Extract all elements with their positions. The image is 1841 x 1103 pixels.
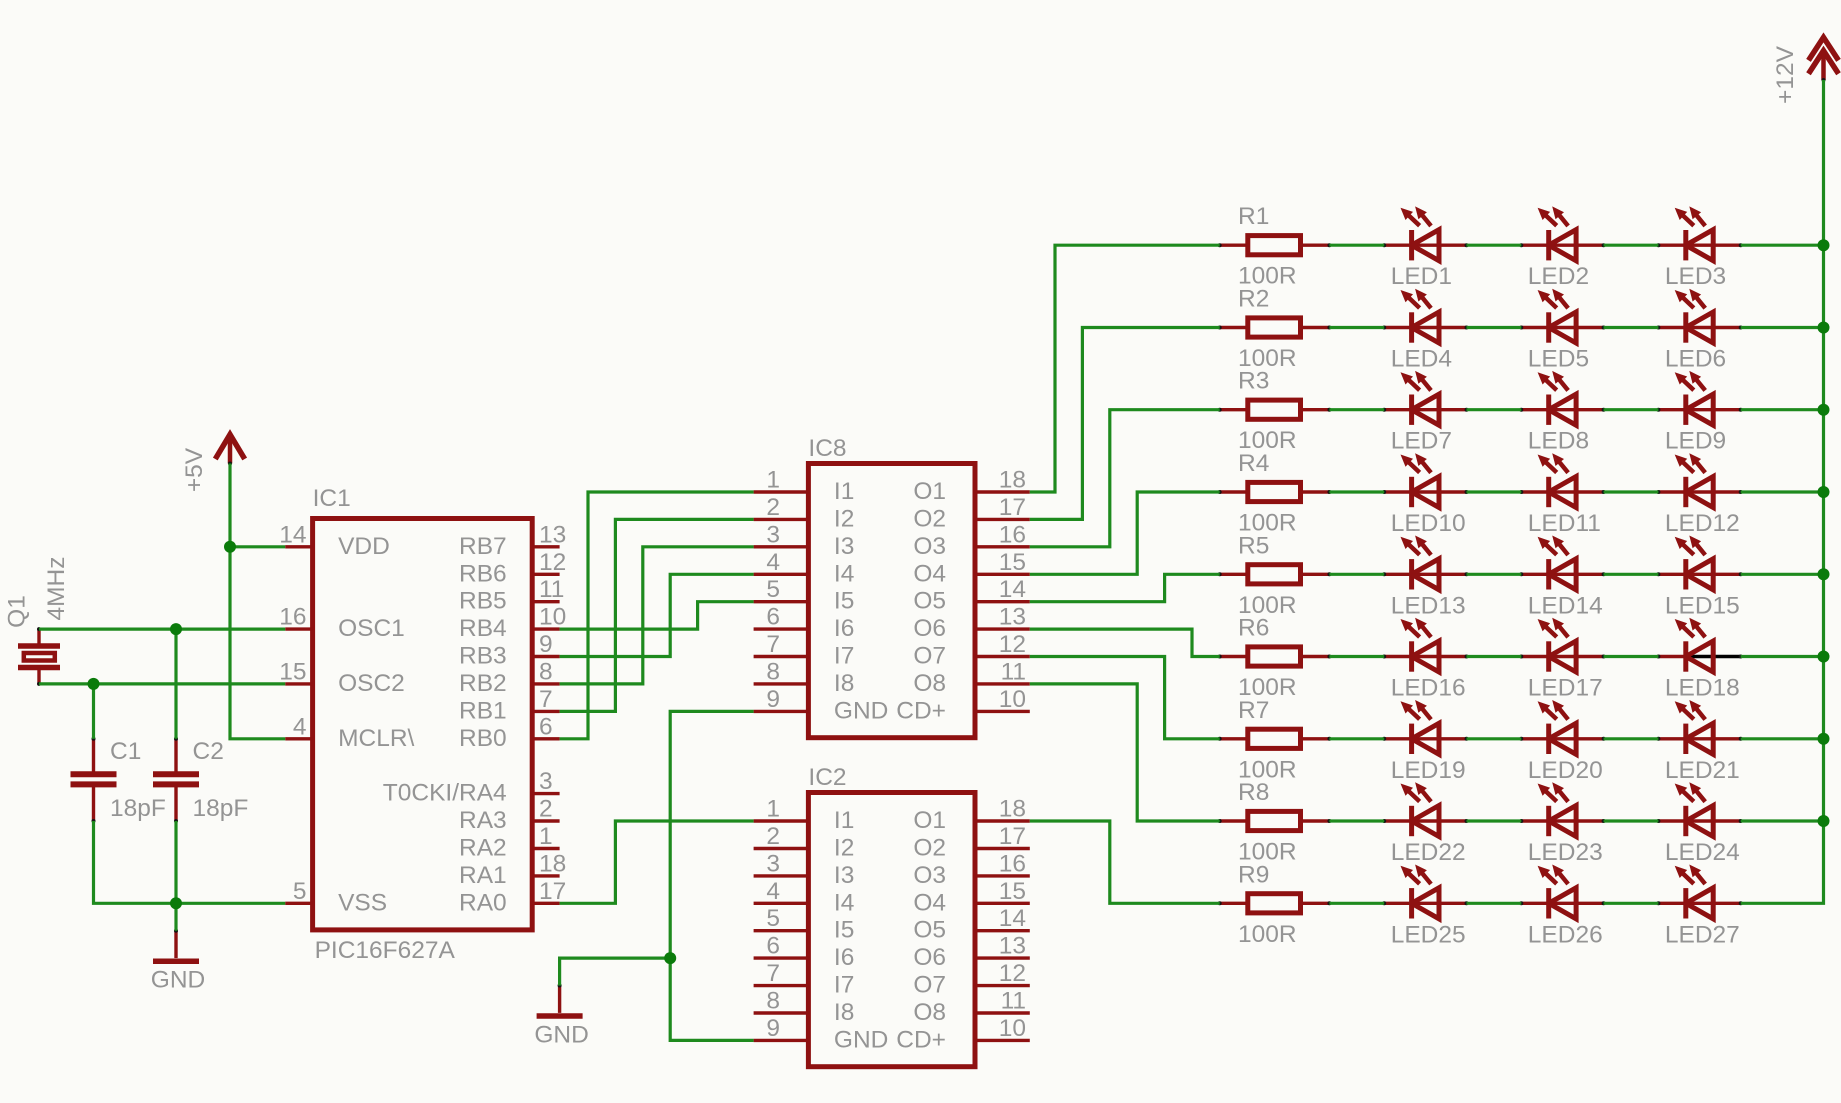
svg-text:LED7: LED7 xyxy=(1391,428,1452,455)
LED LED5 xyxy=(1519,289,1605,373)
svg-text:+5V: +5V xyxy=(181,447,208,492)
svg-text:16: 16 xyxy=(279,604,306,631)
svg-text:RB6: RB6 xyxy=(459,560,507,587)
svg-text:O2: O2 xyxy=(913,505,946,532)
IC8 pin 3 I3 xyxy=(754,521,855,560)
wire row 1: R1 to LED1 xyxy=(1329,244,1384,247)
IC2 pin 13 O6 xyxy=(913,933,1029,972)
svg-text:8: 8 xyxy=(766,658,780,685)
wire row 9: LED27 to +12V bus xyxy=(1741,80,1824,903)
LED LED8 xyxy=(1519,371,1605,455)
svg-text:LED23: LED23 xyxy=(1528,839,1603,866)
svg-text:LED26: LED26 xyxy=(1528,921,1603,948)
LED LED11 xyxy=(1519,453,1605,537)
IC1 pin 3 T0CKI/RA4 xyxy=(383,768,560,807)
IC2 pin 1 I1 xyxy=(754,796,855,835)
LED LED9 xyxy=(1656,371,1742,455)
svg-text:LED21: LED21 xyxy=(1665,757,1740,784)
svg-text:11: 11 xyxy=(1001,988,1026,1015)
IC8 pin 2 I2 xyxy=(754,494,855,533)
svg-text:17: 17 xyxy=(999,823,1026,850)
svg-text:LED22: LED22 xyxy=(1391,839,1466,866)
svg-text:LED5: LED5 xyxy=(1528,346,1589,373)
svg-text:15: 15 xyxy=(999,878,1026,905)
svg-text:RA1: RA1 xyxy=(459,862,507,889)
svg-text:14: 14 xyxy=(279,521,306,548)
IC2 pin 11 O8 xyxy=(913,988,1029,1027)
svg-text:O6: O6 xyxy=(913,944,946,971)
IC1 pin 17 RA0 xyxy=(459,878,566,917)
wire row 4: LED12 to +12V bus xyxy=(1741,490,1824,493)
svg-text:18: 18 xyxy=(999,796,1026,823)
IC2 pin 3 I3 xyxy=(754,850,855,889)
svg-text:I1: I1 xyxy=(834,478,854,505)
wire IC8 O2 to R3 xyxy=(1030,328,1220,520)
svg-text:6: 6 xyxy=(766,604,780,631)
junction node +12V bus row 8 xyxy=(1818,815,1830,827)
svg-text:I4: I4 xyxy=(834,560,854,587)
svg-text:R8: R8 xyxy=(1238,779,1269,806)
junction node +12V bus row 7 xyxy=(1818,733,1830,745)
LED LED26 xyxy=(1519,865,1605,949)
junction node +12V bus row 5 xyxy=(1818,568,1830,580)
svg-text:3: 3 xyxy=(766,521,780,548)
resistor R5 100R xyxy=(1218,532,1332,619)
LED LED20 xyxy=(1519,700,1605,784)
wire IC8 O6 to R7 xyxy=(1030,629,1220,656)
svg-text:9: 9 xyxy=(539,631,553,658)
junction node +12V bus row 2 xyxy=(1818,322,1830,334)
svg-text:R2: R2 xyxy=(1238,286,1269,313)
svg-text:11: 11 xyxy=(1001,658,1026,685)
resistor R9 100R xyxy=(1218,861,1332,948)
wire IC8 O8 to R9 xyxy=(1030,684,1220,821)
IC IC8 box xyxy=(808,435,975,738)
svg-text:8: 8 xyxy=(539,658,553,685)
IC1 pin 16 OSC1 xyxy=(279,604,405,643)
svg-text:11: 11 xyxy=(539,576,564,603)
wire GND net: IC8 pin9 to IC2 pin9 xyxy=(670,711,753,1040)
svg-text:4: 4 xyxy=(766,878,780,905)
svg-text:LED17: LED17 xyxy=(1528,675,1603,702)
IC2 pin 6 I6 xyxy=(754,933,855,972)
wire row 1: LED1 to LED2 xyxy=(1467,244,1522,247)
svg-text:LED3: LED3 xyxy=(1665,263,1726,290)
IC1 pin 2 RA3 xyxy=(459,796,560,835)
IC2 pin 12 O7 xyxy=(913,960,1029,999)
svg-text:Q1: Q1 xyxy=(4,595,31,628)
resistor R3 100R xyxy=(1218,368,1332,455)
svg-text:O5: O5 xyxy=(913,588,946,615)
IC8 pin 14 O5 xyxy=(913,576,1029,615)
crystal Q1 4MHz xyxy=(4,557,71,686)
svg-text:I2: I2 xyxy=(834,835,854,862)
svg-text:RB0: RB0 xyxy=(459,725,507,752)
svg-text:I7: I7 xyxy=(834,643,854,670)
IC1 pin 10 RB4 xyxy=(459,604,566,643)
svg-text:3: 3 xyxy=(539,768,553,795)
svg-text:12: 12 xyxy=(539,549,566,576)
IC2 pin 17 O2 xyxy=(913,823,1029,862)
svg-text:8: 8 xyxy=(766,988,780,1015)
svg-text:4: 4 xyxy=(293,713,307,740)
IC1 pin 7 RB1 xyxy=(459,686,560,725)
svg-text:1: 1 xyxy=(539,823,553,850)
wire row 2: R2 to LED4 xyxy=(1329,326,1384,329)
IC8 pin 12 O7 xyxy=(913,631,1029,670)
LED LED16 xyxy=(1382,618,1468,702)
resistor R6 100R xyxy=(1218,615,1332,702)
resistor R1 100R xyxy=(1218,203,1332,290)
LED LED22 xyxy=(1382,782,1468,866)
svg-text:7: 7 xyxy=(766,631,780,658)
LED LED10 xyxy=(1382,453,1468,537)
IC8 pin 17 O2 xyxy=(913,494,1029,533)
wire row 4: LED10 to LED11 xyxy=(1467,490,1522,493)
svg-text:17: 17 xyxy=(539,878,566,905)
svg-text:I8: I8 xyxy=(834,670,854,697)
wire GND branch to GND symbol xyxy=(560,958,671,985)
wire OSC1 branch to C2 xyxy=(174,629,177,739)
svg-text:R6: R6 xyxy=(1238,615,1269,642)
IC IC2 box xyxy=(808,764,975,1067)
wire row 9: R9 to LED25 xyxy=(1329,902,1384,905)
IC2 pin 18 O1 xyxy=(913,796,1029,835)
svg-text:IC1: IC1 xyxy=(313,485,351,512)
svg-text:7: 7 xyxy=(539,686,553,713)
svg-text:O3: O3 xyxy=(913,862,946,889)
svg-text:LED2: LED2 xyxy=(1528,263,1589,290)
LED LED27 xyxy=(1656,865,1742,949)
IC1 pin 14 VDD xyxy=(279,521,390,560)
LED LED6 xyxy=(1656,289,1742,373)
svg-text:9: 9 xyxy=(766,686,780,713)
svg-text:13: 13 xyxy=(999,604,1026,631)
svg-text:100R: 100R xyxy=(1238,921,1297,948)
IC8 pin 16 O3 xyxy=(913,521,1029,560)
svg-text:VSS: VSS xyxy=(338,889,387,916)
svg-text:I5: I5 xyxy=(834,917,854,944)
capacitor C1 18pF xyxy=(71,737,166,823)
svg-text:18pF: 18pF xyxy=(193,795,249,822)
junction node +5V/VDD xyxy=(224,541,236,553)
svg-text:4MHz: 4MHz xyxy=(43,557,70,621)
IC8 pin 5 I5 xyxy=(754,576,855,615)
IC8 pin 11 O8 xyxy=(913,658,1029,697)
svg-text:I6: I6 xyxy=(834,944,854,971)
wire row 7: LED19 to LED20 xyxy=(1467,737,1522,740)
IC1 pin 12 RB6 xyxy=(459,549,566,588)
svg-text:I3: I3 xyxy=(834,533,854,560)
IC2 pin 9 GND xyxy=(754,1015,889,1054)
IC8 pin 7 I7 xyxy=(754,631,855,670)
svg-text:IC2: IC2 xyxy=(808,764,846,791)
wire row 1: LED2 to LED3 xyxy=(1604,244,1659,247)
svg-text:5: 5 xyxy=(766,576,780,603)
IC1 pin 5 VSS xyxy=(285,878,387,917)
svg-text:R3: R3 xyxy=(1238,368,1269,395)
resistor R2 100R xyxy=(1218,286,1332,373)
svg-text:LED24: LED24 xyxy=(1665,839,1740,866)
svg-text:PIC16F627A: PIC16F627A xyxy=(315,937,456,964)
svg-text:12: 12 xyxy=(999,631,1026,658)
wire RB0 to IC8 I1 xyxy=(560,492,754,739)
svg-text:10: 10 xyxy=(539,604,566,631)
svg-text:16: 16 xyxy=(999,850,1026,877)
svg-text:O4: O4 xyxy=(913,560,946,587)
resistor R8 100R xyxy=(1218,779,1332,866)
svg-text:6: 6 xyxy=(539,713,553,740)
wire row 6: LED16 to LED17 xyxy=(1467,655,1522,658)
wire RB1 to IC8 I2 xyxy=(560,519,754,711)
IC8 pin 1 I1 xyxy=(754,467,855,506)
svg-text:GND: GND xyxy=(151,967,205,994)
supply +12V symbol xyxy=(1772,37,1839,104)
IC8 pin 8 I8 xyxy=(754,658,855,697)
IC1 pin 6 RB0 xyxy=(459,713,560,752)
wire row 8: LED23 to LED24 xyxy=(1604,819,1659,822)
wire row 1: LED3 to +12V bus xyxy=(1741,244,1824,247)
svg-text:15: 15 xyxy=(999,549,1026,576)
svg-text:RB4: RB4 xyxy=(459,615,507,642)
wire row 8: R8 to LED22 xyxy=(1329,819,1384,822)
svg-text:RB1: RB1 xyxy=(459,697,507,724)
svg-text:T0CKI/RA4: T0CKI/RA4 xyxy=(383,780,507,807)
svg-text:LED20: LED20 xyxy=(1528,757,1603,784)
svg-text:LED16: LED16 xyxy=(1391,675,1466,702)
svg-text:LED19: LED19 xyxy=(1391,757,1466,784)
svg-text:CD+: CD+ xyxy=(896,697,946,724)
ground symbol GND (left, crystal caps) xyxy=(151,929,205,994)
IC8 pin 15 O4 xyxy=(913,549,1029,588)
IC1 pin 4 MCLR\ xyxy=(285,713,414,752)
wire row 7: LED21 to +12V bus xyxy=(1741,737,1824,740)
svg-text:C1: C1 xyxy=(110,738,141,765)
wire OSC1 net: Q1 top to IC1 pin16 xyxy=(39,627,285,630)
svg-text:13: 13 xyxy=(539,521,566,548)
svg-text:RA3: RA3 xyxy=(459,807,507,834)
IC2 pin 10 CD+ xyxy=(896,1015,1030,1054)
wire row 9: LED25 to LED26 xyxy=(1467,902,1522,905)
svg-text:OSC2: OSC2 xyxy=(338,670,405,697)
svg-text:R5: R5 xyxy=(1238,532,1269,559)
svg-text:LED18: LED18 xyxy=(1665,675,1740,702)
wire row 3: R3 to LED7 xyxy=(1329,408,1384,411)
wire +5V net vertical xyxy=(230,464,285,739)
wire row 6: R6 to LED16 xyxy=(1329,655,1384,658)
wire row 2: LED4 to LED5 xyxy=(1467,326,1522,329)
LED LED25 xyxy=(1382,865,1468,949)
junction node OSC2/C1 xyxy=(88,678,100,690)
wire IC8 O1 to R2 xyxy=(1030,245,1220,492)
svg-text:10: 10 xyxy=(999,686,1026,713)
svg-text:I8: I8 xyxy=(834,999,854,1026)
svg-text:14: 14 xyxy=(999,576,1026,603)
svg-text:10: 10 xyxy=(999,1015,1026,1042)
LED LED7 xyxy=(1382,371,1468,455)
IC2 pin 7 I7 xyxy=(754,960,855,999)
svg-text:RA2: RA2 xyxy=(459,835,507,862)
svg-text:14: 14 xyxy=(999,905,1026,932)
wire row 3: LED9 to +12V bus xyxy=(1741,408,1824,411)
IC8 pin 6 I6 xyxy=(754,604,855,643)
svg-text:R9: R9 xyxy=(1238,861,1269,888)
svg-text:O7: O7 xyxy=(913,972,946,999)
IC2 pin 5 I5 xyxy=(754,905,855,944)
wire row 4: R4 to LED10 xyxy=(1329,490,1384,493)
svg-text:2: 2 xyxy=(539,796,553,823)
wire row 4: LED11 to LED12 xyxy=(1604,490,1659,493)
IC1 pin 18 RA1 xyxy=(459,850,566,889)
svg-text:LED12: LED12 xyxy=(1665,510,1740,537)
IC2 pin 4 I4 xyxy=(754,878,855,917)
IC2 pin 15 O4 xyxy=(913,878,1029,917)
svg-text:I4: I4 xyxy=(834,889,854,916)
svg-text:I6: I6 xyxy=(834,615,854,642)
wire IC8 O3 to R4 xyxy=(1030,410,1220,547)
IC2 pin 8 I8 xyxy=(754,988,855,1027)
svg-text:13: 13 xyxy=(999,933,1026,960)
svg-text:LED11: LED11 xyxy=(1528,510,1601,537)
wire row 5: LED13 to LED14 xyxy=(1467,573,1522,576)
svg-text:RB2: RB2 xyxy=(459,670,507,697)
svg-text:LED1: LED1 xyxy=(1391,263,1452,290)
svg-text:LED4: LED4 xyxy=(1391,346,1452,373)
svg-text:2: 2 xyxy=(766,823,780,850)
svg-text:R4: R4 xyxy=(1238,450,1269,477)
svg-text:1: 1 xyxy=(766,467,780,494)
junction node +12V bus row 1 xyxy=(1818,239,1830,251)
wire OSC2 branch to C1 xyxy=(92,684,95,739)
wire OSC2 net: Q1 bottom to IC1 pin15 xyxy=(39,682,285,685)
IC2 pin 14 O5 xyxy=(913,905,1029,944)
wire IC8 O5 to R6 xyxy=(1030,574,1220,601)
svg-text:18pF: 18pF xyxy=(110,795,166,822)
svg-text:O8: O8 xyxy=(913,999,946,1026)
svg-text:RB7: RB7 xyxy=(459,533,507,560)
wire GND net: C2 bottom to GND symbol xyxy=(174,821,177,931)
svg-text:+12V: +12V xyxy=(1772,45,1799,104)
svg-text:O2: O2 xyxy=(913,835,946,862)
svg-text:RB3: RB3 xyxy=(459,643,507,670)
svg-text:LED10: LED10 xyxy=(1391,510,1466,537)
LED LED19 xyxy=(1382,700,1468,784)
svg-text:O5: O5 xyxy=(913,917,946,944)
svg-text:LED14: LED14 xyxy=(1528,592,1603,619)
svg-text:O7: O7 xyxy=(913,643,946,670)
wire RB4 to IC8 I5 xyxy=(560,602,754,629)
wire row 2: LED6 to +12V bus xyxy=(1741,326,1824,329)
svg-text:12: 12 xyxy=(999,960,1026,987)
svg-text:9: 9 xyxy=(766,1015,780,1042)
wire GND net: C1 bottom to VSS pin5 xyxy=(94,821,286,903)
supply +5V symbol xyxy=(181,435,245,493)
wire row 2: LED5 to LED6 xyxy=(1604,326,1659,329)
svg-text:5: 5 xyxy=(766,905,780,932)
svg-text:I3: I3 xyxy=(834,862,854,889)
svg-text:MCLR\: MCLR\ xyxy=(338,725,414,752)
svg-text:3: 3 xyxy=(766,850,780,877)
svg-text:1: 1 xyxy=(766,796,780,823)
svg-text:I2: I2 xyxy=(834,505,854,532)
svg-text:LED8: LED8 xyxy=(1528,428,1589,455)
wire IC8 O7 to R8 xyxy=(1030,657,1220,739)
resistor R7 100R xyxy=(1218,697,1332,784)
wire row 7: R7 to LED19 xyxy=(1329,737,1384,740)
LED LED1 xyxy=(1382,206,1468,290)
wire row 6: LED18 to +12V bus xyxy=(1741,655,1824,658)
wire row 5: R5 to LED13 xyxy=(1329,573,1384,576)
wire row 5: LED15 to +12V bus xyxy=(1741,573,1824,576)
IC2 pin 2 I2 xyxy=(754,823,855,862)
wire RA0 to IC2 I1 xyxy=(560,821,754,903)
LED LED18 xyxy=(1656,618,1742,702)
svg-text:I7: I7 xyxy=(834,972,854,999)
IC2 pin 16 O3 xyxy=(913,850,1029,889)
svg-text:16: 16 xyxy=(999,521,1026,548)
junction node +12V bus row 3 xyxy=(1818,404,1830,416)
svg-text:LED15: LED15 xyxy=(1665,592,1740,619)
LED LED13 xyxy=(1382,536,1468,620)
LED LED2 xyxy=(1519,206,1605,290)
svg-text:LED9: LED9 xyxy=(1665,428,1726,455)
svg-text:O3: O3 xyxy=(913,533,946,560)
svg-text:O8: O8 xyxy=(913,670,946,697)
IC8 pin 9 GND xyxy=(754,686,889,725)
svg-text:18: 18 xyxy=(539,850,566,877)
svg-text:7: 7 xyxy=(766,960,780,987)
LED LED3 xyxy=(1656,206,1742,290)
IC8 pin 18 O1 xyxy=(913,467,1029,506)
ground symbol GND (IC2/IC8) xyxy=(534,984,588,1049)
svg-text:15: 15 xyxy=(279,658,306,685)
svg-text:CD+: CD+ xyxy=(896,1026,946,1053)
junction node +12V bus row 6 xyxy=(1818,651,1830,663)
IC8 pin 10 CD+ xyxy=(896,686,1030,725)
svg-text:18: 18 xyxy=(999,467,1026,494)
svg-text:VDD: VDD xyxy=(338,533,390,560)
wire IC8 O4 to R5 xyxy=(1030,492,1220,574)
IC1 pin 13 RB7 xyxy=(459,521,566,560)
svg-text:4: 4 xyxy=(766,549,780,576)
resistor R4 100R xyxy=(1218,450,1332,537)
svg-text:RA0: RA0 xyxy=(459,889,507,916)
wire RB2 to IC8 I3 xyxy=(560,547,754,684)
IC U IC1 box PIC16F627A xyxy=(313,485,533,964)
svg-text:17: 17 xyxy=(999,494,1026,521)
wire row 7: LED20 to LED21 xyxy=(1604,737,1659,740)
svg-text:O1: O1 xyxy=(913,807,946,834)
LED LED15 xyxy=(1656,536,1742,620)
junction node +12V bus row 4 xyxy=(1818,486,1830,498)
svg-text:RB5: RB5 xyxy=(459,588,507,615)
IC1 pin 11 RB5 xyxy=(459,576,564,615)
svg-text:O6: O6 xyxy=(913,615,946,642)
wire IC2 O1 to R9 xyxy=(1030,821,1220,903)
svg-text:O4: O4 xyxy=(913,889,946,916)
wire row 9: LED26 to LED27 xyxy=(1604,902,1659,905)
wire row 5: LED14 to LED15 xyxy=(1604,573,1659,576)
svg-text:R1: R1 xyxy=(1238,203,1269,230)
svg-text:LED25: LED25 xyxy=(1391,921,1466,948)
LED LED12 xyxy=(1656,453,1742,537)
IC8 pin 4 I4 xyxy=(754,549,855,588)
wire row 6: LED17 to LED18 xyxy=(1604,655,1659,658)
IC1 pin 8 RB2 xyxy=(459,658,560,697)
IC1 pin 1 RA2 xyxy=(459,823,560,862)
capacitor C2 18pF xyxy=(153,737,248,823)
junction node GND/C2/VSS xyxy=(170,897,182,909)
